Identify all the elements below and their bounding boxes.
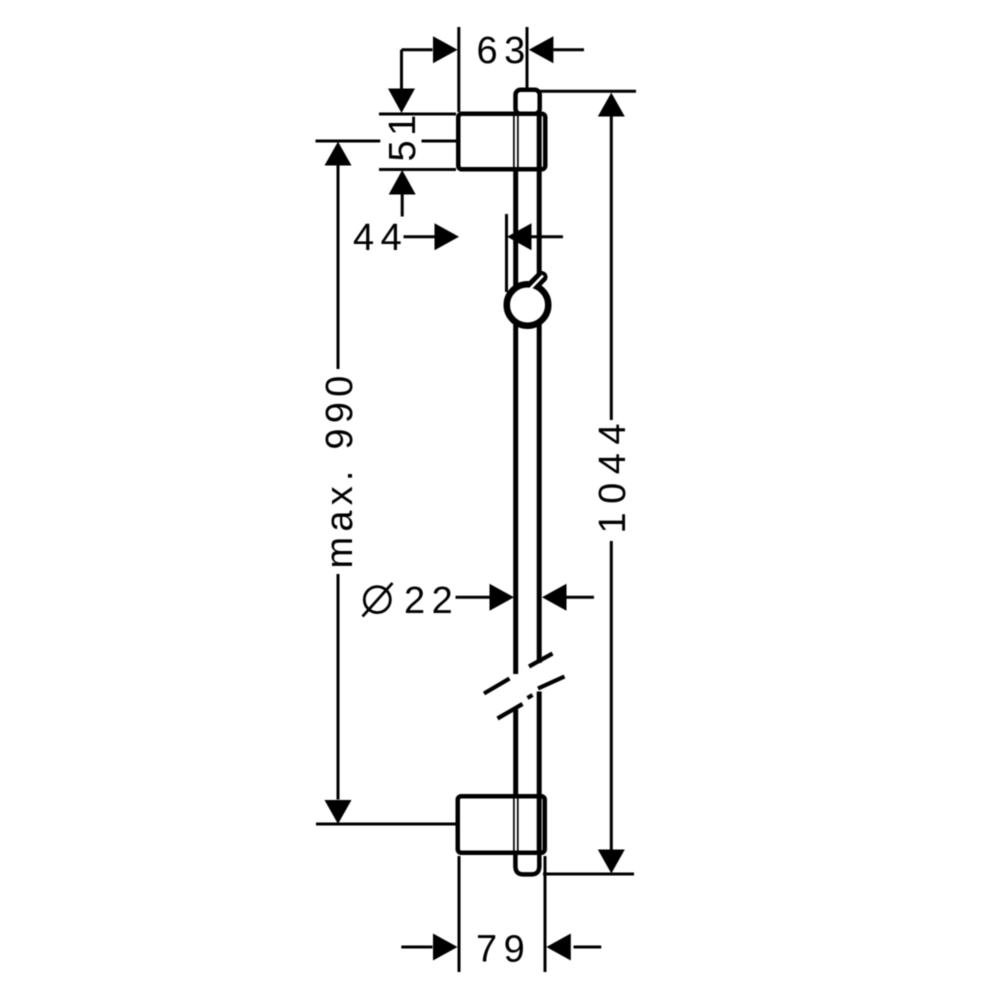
svg-text:44: 44 xyxy=(353,217,408,259)
svg-text:max. 990: max. 990 xyxy=(319,371,361,569)
svg-text:22: 22 xyxy=(404,580,459,622)
svg-text:63: 63 xyxy=(477,30,532,72)
svg-text:79: 79 xyxy=(476,929,531,971)
svg-text:1044: 1044 xyxy=(592,415,634,534)
svg-text:51: 51 xyxy=(382,110,424,161)
